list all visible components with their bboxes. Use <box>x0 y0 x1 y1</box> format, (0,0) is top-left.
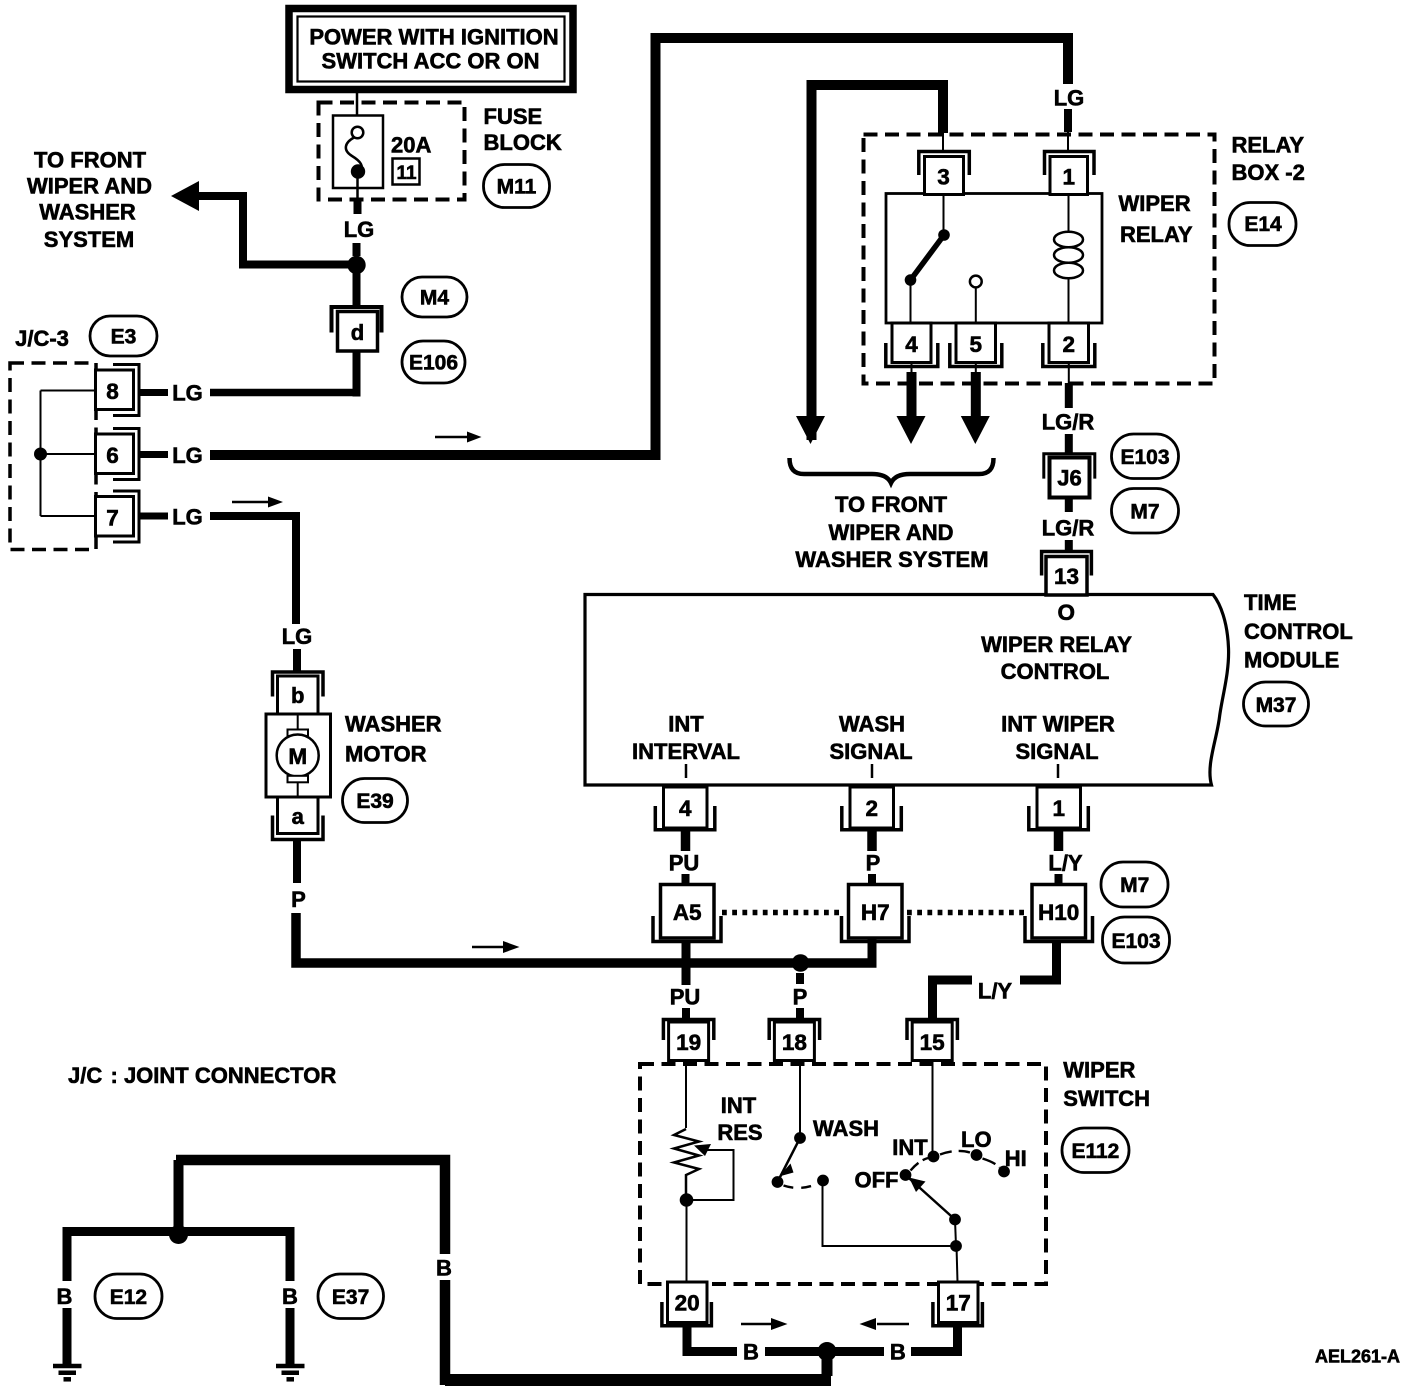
wire relay pin3 to contact <box>943 194 945 233</box>
svg-text:3: 3 <box>937 165 950 190</box>
svg-text:RELAY: RELAY <box>1232 133 1305 158</box>
relay pin 1 <box>1045 152 1095 176</box>
node LO contact <box>971 1149 983 1161</box>
svg-text:L/Y: L/Y <box>1048 851 1083 876</box>
wire H10 to pin 15 L/Y <box>1020 941 1057 980</box>
svg-text:J6: J6 <box>1057 466 1081 491</box>
svg-text:5: 5 <box>970 332 983 357</box>
svg-text:PU: PU <box>669 851 700 876</box>
fuse number box 11 <box>393 159 420 185</box>
wire pin7 LG to washer motor <box>210 516 296 624</box>
svg-text:B: B <box>57 1284 73 1309</box>
svg-text:E103: E103 <box>1111 930 1160 953</box>
svg-text:13: 13 <box>1054 564 1079 589</box>
svg-text:B: B <box>436 1256 452 1281</box>
node wash pole <box>772 1176 784 1188</box>
connector ref E103 <box>1112 434 1179 479</box>
svg-text:CONTROL: CONTROL <box>1001 659 1110 684</box>
pin 15 <box>907 1020 957 1041</box>
pin 20 <box>668 1282 708 1323</box>
wire pin1 to H10 <box>1054 830 1064 851</box>
time control module box <box>585 595 1229 786</box>
wire arm to common <box>955 1220 956 1247</box>
wire pin 17 B <box>911 1326 958 1352</box>
svg-text:J/C-3: J/C-3 <box>15 326 69 351</box>
pin 19 <box>663 1020 713 1041</box>
connector ref E106 <box>402 341 465 383</box>
wire pin8 LG to d <box>210 389 357 397</box>
svg-text:RES: RES <box>717 1120 762 1145</box>
detent arc OFF-INT <box>911 1158 929 1171</box>
wire P washer motor to H7 <box>296 913 877 963</box>
wire B to junction <box>765 1347 820 1356</box>
svg-text:B: B <box>282 1284 298 1309</box>
connector J6 box <box>1050 458 1090 498</box>
label to front wiper and washer system <box>27 148 152 253</box>
svg-text:1: 1 <box>1053 796 1066 821</box>
svg-text:20: 20 <box>675 1291 700 1316</box>
wiper switch arm <box>906 1175 956 1220</box>
svg-text:LG: LG <box>172 381 203 406</box>
connector ref E12 <box>95 1274 162 1319</box>
svg-text:6: 6 <box>106 443 119 468</box>
relay pin 2 <box>1049 323 1089 363</box>
wire pin7 LG stub <box>140 513 169 520</box>
svg-text:J/C: J/C <box>68 1063 102 1088</box>
connector H10 <box>1032 885 1086 939</box>
ground trunk wire <box>445 1374 831 1386</box>
wiper relay inner box <box>886 194 1102 324</box>
svg-text:11: 11 <box>396 163 417 184</box>
connector ref M11 <box>484 165 550 208</box>
node wash common <box>817 1175 829 1187</box>
wash switch arm <box>778 1138 801 1182</box>
pin 18 <box>769 1020 819 1041</box>
node P junction <box>792 954 810 972</box>
wire pin15 to INT contact <box>932 1060 934 1152</box>
module pin 2 <box>850 787 894 828</box>
svg-text:WASHER: WASHER <box>345 712 442 737</box>
svg-text:WIPER AND: WIPER AND <box>27 174 152 199</box>
wire LG dash below fuse <box>354 199 362 214</box>
svg-text:E106: E106 <box>409 352 458 375</box>
svg-text:LG: LG <box>282 624 313 649</box>
node arm pivot <box>949 1214 961 1226</box>
wire branch to front wiper system <box>197 196 352 265</box>
node relay contact top <box>938 229 950 241</box>
svg-text:AEL261-A: AEL261-A <box>1315 1347 1400 1367</box>
module pin 1 <box>1037 787 1081 828</box>
svg-text:E3: E3 <box>111 326 137 349</box>
wire pin19 to resistor <box>685 1060 687 1128</box>
joint connector J/C-3 dashed box <box>10 363 96 550</box>
svg-text:PU: PU <box>670 985 701 1010</box>
svg-text:17: 17 <box>946 1291 971 1316</box>
svg-text:1: 1 <box>1062 165 1075 190</box>
power source box POWER WITH IGNITION SWITCH ACC OR ON <box>289 9 573 90</box>
connector ref M7 <box>1112 489 1179 534</box>
connector ref E103 lower <box>1103 917 1170 963</box>
wire power box to fuse <box>356 93 359 127</box>
wash switch <box>772 1060 956 1246</box>
svg-text:M37: M37 <box>1256 694 1297 717</box>
node switch common <box>950 1240 962 1252</box>
svg-text:TO FRONT: TO FRONT <box>34 148 147 173</box>
svg-text:M7: M7 <box>1130 501 1159 524</box>
connector d bracket (M4/E106) <box>332 307 382 333</box>
wire armature to pin4 <box>910 284 912 323</box>
arrow to front wiper system <box>171 181 199 211</box>
svg-text:P: P <box>866 851 881 876</box>
node HI contact <box>998 1166 1010 1178</box>
relay pin 4 <box>892 323 931 363</box>
svg-text:RELAY: RELAY <box>1120 222 1193 247</box>
svg-text:E12: E12 <box>110 1286 147 1309</box>
ground symbol E37 <box>276 1366 305 1379</box>
washer motor pin b <box>273 672 324 697</box>
svg-text:4: 4 <box>905 332 918 357</box>
wire relay pin4 down arrow <box>911 362 913 374</box>
wire jumper bus <box>40 391 42 517</box>
connector ref M37 <box>1244 682 1309 726</box>
svg-text:INTERVAL: INTERVAL <box>632 739 740 764</box>
svg-text:TIME: TIME <box>1244 590 1297 615</box>
pin 6 <box>113 429 139 480</box>
module pin 4 <box>664 787 708 828</box>
int res resistor <box>674 1060 699 1195</box>
wire wash common to pin17 <box>823 1186 957 1246</box>
main wiper switch contacts <box>900 1060 1010 1282</box>
svg-text:E103: E103 <box>1120 446 1169 469</box>
svg-text:BLOCK: BLOCK <box>484 130 562 155</box>
connector ref E14 <box>1229 203 1296 246</box>
wire pin8 LG stub <box>140 389 169 396</box>
wire relay pin5 down arrow <box>975 362 977 374</box>
pin 17 <box>939 1282 979 1323</box>
svg-text:2: 2 <box>1063 332 1076 357</box>
svg-text:POWER WITH IGNITION: POWER WITH IGNITION <box>309 25 558 50</box>
svg-text:INT: INT <box>892 1135 928 1160</box>
svg-text:MODULE: MODULE <box>1244 648 1339 673</box>
svg-text:OFF: OFF <box>855 1168 899 1193</box>
svg-text:20A: 20A <box>391 133 431 158</box>
wire stubs into relay pins 3 and 1 <box>942 133 944 150</box>
detent arc LO-HI <box>983 1159 1000 1168</box>
wire B junction down to trunk <box>822 1352 833 1377</box>
J/C-3 internal jumper wires <box>41 391 96 517</box>
dotted link H7 to H10 <box>907 910 1025 916</box>
svg-text:P: P <box>793 985 808 1010</box>
svg-text:WASH: WASH <box>839 712 905 737</box>
svg-text:SYSTEM: SYSTEM <box>44 227 134 252</box>
pin 13 box <box>1046 557 1087 596</box>
svg-text:LG: LG <box>1054 86 1085 111</box>
svg-text:TO FRONT: TO FRONT <box>835 492 948 517</box>
wire B junction to pin17 <box>834 1347 884 1356</box>
wire relay pin2 down <box>1068 362 1070 384</box>
connector ref M7 lower <box>1101 862 1168 907</box>
relay coil <box>1054 194 1083 323</box>
wire trunk junction vertical <box>174 1160 184 1234</box>
svg-text:a: a <box>292 804 305 829</box>
wire LG into relay <box>1064 109 1072 132</box>
svg-text:WIPER AND: WIPER AND <box>828 520 953 545</box>
svg-text:LG: LG <box>344 217 375 242</box>
wire label B trunk <box>432 1254 458 1280</box>
brace to front wiper and washer system <box>790 458 994 483</box>
arrow on pin6 wire <box>435 436 470 439</box>
resistor INT RES zigzag <box>674 1129 699 1194</box>
node B junction <box>818 1342 837 1361</box>
relay coil winding <box>1054 232 1083 248</box>
svg-text:L/Y: L/Y <box>978 979 1013 1004</box>
node OFF contact <box>900 1169 912 1181</box>
svg-text:M: M <box>288 744 307 769</box>
svg-text:A5: A5 <box>673 900 702 925</box>
wire A5 down to pin 19 <box>682 941 691 985</box>
resistor tap loop <box>692 1144 734 1200</box>
svg-text:H10: H10 <box>1038 900 1079 925</box>
connector H7 <box>849 885 903 939</box>
svg-text:B: B <box>743 1340 759 1365</box>
wire pin6 LG stub <box>140 451 169 458</box>
svg-text:M7: M7 <box>1120 874 1149 897</box>
label to front wiper and washer system 2 <box>795 492 988 572</box>
svg-text:E37: E37 <box>332 1286 369 1309</box>
svg-text:19: 19 <box>676 1030 701 1055</box>
detent arc INT-LO <box>940 1151 970 1155</box>
wire jumper pin7 <box>41 515 96 517</box>
svg-text:b: b <box>291 683 304 708</box>
wire pin18 to wash contact <box>799 1060 801 1136</box>
svg-text:WASHER SYSTEM: WASHER SYSTEM <box>795 547 988 572</box>
svg-text:M4: M4 <box>420 287 449 310</box>
node J/C-3 junction <box>34 448 47 461</box>
svg-text:WASH: WASH <box>813 1116 879 1141</box>
wash detent dashed link <box>784 1184 818 1188</box>
svg-text:: JOINT CONNECTOR: : JOINT CONNECTOR <box>111 1063 337 1088</box>
svg-text:LG: LG <box>172 505 203 530</box>
node INT contact <box>928 1151 940 1163</box>
svg-text:HI: HI <box>1005 1146 1027 1171</box>
svg-text:LG/R: LG/R <box>1042 410 1095 435</box>
connector J6 bracket <box>1044 454 1095 479</box>
arrows on B wire <box>741 1323 773 1326</box>
node relay armature pivot <box>905 274 917 286</box>
wire resistor to pin 20 <box>686 1200 688 1282</box>
connector ref E112 <box>1062 1128 1129 1173</box>
wire to ground E37 <box>179 1232 291 1282</box>
pin 7 <box>113 491 139 542</box>
svg-text:18: 18 <box>782 1030 807 1055</box>
connector ref E39 <box>343 779 408 823</box>
relay pin 5 <box>956 323 996 363</box>
svg-text:MOTOR: MOTOR <box>345 742 427 767</box>
wire H7 down <box>868 938 877 963</box>
svg-text:FUSE: FUSE <box>484 104 543 129</box>
wire pin2 to H7 <box>867 830 877 851</box>
arrow down to front wiper system 1 <box>796 416 825 444</box>
wire jumper pin6 <box>41 453 96 455</box>
svg-text:SIGNAL: SIGNAL <box>1015 739 1098 764</box>
washer motor E39 body <box>266 714 331 797</box>
svg-text:WASHER: WASHER <box>39 200 136 225</box>
wire LG into washer motor <box>293 649 301 673</box>
svg-text:E14: E14 <box>1244 213 1282 236</box>
washer motor pin a <box>278 797 319 834</box>
connector d box <box>338 312 378 352</box>
svg-text:BOX -2: BOX -2 <box>1232 160 1305 185</box>
connector A5 <box>661 885 715 939</box>
wire J6 down <box>1065 499 1073 512</box>
svg-text:SIGNAL: SIGNAL <box>829 739 912 764</box>
wire junction to connector d <box>353 265 361 307</box>
wire relay pin1 to coil <box>1068 194 1070 232</box>
arrow on P wire <box>472 946 505 949</box>
node wash contact <box>794 1132 806 1144</box>
svg-text:INT: INT <box>668 712 704 737</box>
svg-text:WIPER RELAY: WIPER RELAY <box>981 632 1132 657</box>
node LG junction <box>347 256 365 274</box>
wire jumper pin8 <box>41 390 96 392</box>
svg-text:E39: E39 <box>356 790 393 813</box>
wire pin 20 B <box>687 1326 737 1352</box>
relay pin 3 <box>919 152 970 176</box>
relay box -2 dashed box <box>864 135 1215 384</box>
dotted link A5 to H7 <box>722 910 843 916</box>
relay fixed contact pin 5 <box>970 276 982 288</box>
wire LG/R to J6 <box>1065 434 1073 455</box>
svg-text:M11: M11 <box>497 176 537 199</box>
wire P dashes to pin 18 <box>796 973 804 984</box>
svg-text:E112: E112 <box>1071 1140 1119 1163</box>
wire pin6 LG trunk to relay pin1 <box>210 38 1068 455</box>
svg-text:P: P <box>291 887 306 912</box>
svg-text:4: 4 <box>679 796 692 821</box>
fuse block dashed box <box>319 103 465 200</box>
connector ref M4 <box>402 277 467 317</box>
svg-text:O: O <box>1058 600 1076 625</box>
svg-text:WIPER: WIPER <box>1063 1058 1135 1083</box>
svg-text:LG: LG <box>172 443 203 468</box>
svg-text:INT WIPER: INT WIPER <box>1001 712 1115 737</box>
node ground junction <box>169 1225 188 1244</box>
wire d to pin8 LG wire <box>353 351 361 397</box>
svg-text:SWITCH ACC OR ON: SWITCH ACC OR ON <box>322 49 540 74</box>
wire to ground E12 <box>67 1232 179 1282</box>
pin 8 <box>113 365 139 416</box>
wire LG dash above junction <box>353 243 361 256</box>
svg-text:15: 15 <box>920 1030 945 1055</box>
svg-text:LG/R: LG/R <box>1042 516 1095 541</box>
connector ref E3 <box>90 316 157 356</box>
svg-text:SWITCH: SWITCH <box>1063 1086 1150 1111</box>
wire common to pin 17 <box>957 1246 958 1282</box>
svg-text:INT: INT <box>721 1093 757 1118</box>
trunk wire to relay pin 3 <box>812 85 944 440</box>
svg-text:8: 8 <box>106 379 119 404</box>
node resistor junction <box>680 1193 694 1207</box>
svg-text:LO: LO <box>961 1127 992 1152</box>
wire coil to pin2 <box>1068 278 1070 323</box>
pin 13 bracket <box>1042 552 1092 576</box>
svg-text:B: B <box>890 1340 906 1365</box>
svg-text:2: 2 <box>866 796 879 821</box>
svg-text:CONTROL: CONTROL <box>1244 619 1353 644</box>
wire pin4 to A5 <box>681 830 691 851</box>
wire LG/R to pin 13 <box>1065 540 1073 551</box>
svg-text:7: 7 <box>106 506 119 531</box>
relay switch contact <box>905 194 950 323</box>
wire resistor to junction <box>685 1174 687 1195</box>
connector ref E37 <box>318 1274 384 1319</box>
wire washer motor a down <box>293 839 301 883</box>
svg-text:WIPER: WIPER <box>1119 191 1191 216</box>
fuse F11 20A <box>333 116 383 200</box>
arrow on pin7 wire <box>232 501 269 504</box>
ground symbol E12 <box>53 1366 82 1379</box>
wiper switch dashed box <box>640 1064 1046 1284</box>
svg-text:H7: H7 <box>861 900 890 925</box>
svg-text:d: d <box>351 320 364 345</box>
relay switch armature <box>911 235 945 280</box>
